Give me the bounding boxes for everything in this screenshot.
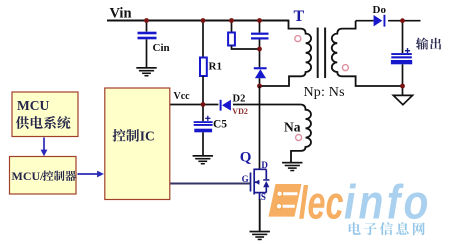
wire snubber resistor to node bbox=[232, 46, 260, 50]
node junction Cin on Vin rail bbox=[144, 18, 149, 23]
polarity dot secondary bbox=[342, 65, 348, 71]
svg-text:Vcc: Vcc bbox=[174, 91, 191, 102]
wire R1 branch bbox=[202, 21, 204, 58]
svg-text:MCU/: MCU/ bbox=[12, 169, 45, 183]
svg-text:S: S bbox=[261, 192, 266, 202]
resistor R1 bbox=[200, 58, 207, 77]
capacitor output Co bbox=[391, 53, 412, 64]
node junction snubber cap on Vin rail bbox=[257, 18, 262, 23]
wire D2 to Na winding bbox=[233, 104, 300, 106]
box MCU controller bbox=[10, 157, 77, 195]
transformer secondary winding Ns bbox=[332, 21, 403, 86]
box control IC bbox=[105, 88, 170, 200]
polarity dot Na bbox=[296, 135, 302, 141]
svg-text:R1: R1 bbox=[209, 61, 222, 73]
wire top rail Vin bbox=[107, 20, 289, 22]
wire output cap to node bbox=[402, 64, 404, 95]
diode snubber bbox=[259, 49, 261, 67]
MOSFET body diode bbox=[263, 181, 269, 187]
ground under Na bbox=[282, 162, 302, 172]
node junction snubber resistor on Vin rail bbox=[229, 18, 234, 23]
transformer core bbox=[317, 28, 319, 79]
svg-text:IC: IC bbox=[140, 129, 155, 144]
capacitor C5 bbox=[202, 105, 204, 122]
transformer aux winding Na bbox=[291, 105, 311, 163]
polarity dot primary bbox=[295, 36, 301, 42]
svg-text:Np: Ns: Np: Ns bbox=[304, 85, 345, 100]
svg-text:VD2: VD2 bbox=[232, 107, 248, 116]
box MCU power system bbox=[12, 92, 78, 137]
svg-text:D2: D2 bbox=[233, 94, 246, 105]
node junction snubber RC to diode bbox=[257, 47, 262, 52]
wire Cin to ground bbox=[146, 39, 148, 67]
wire Cin branch bbox=[146, 21, 148, 32]
wire source to ground bbox=[259, 199, 261, 231]
wire C5 to ground bbox=[202, 132, 204, 155]
node junction Do cathode output bbox=[400, 18, 405, 23]
svg-text:T: T bbox=[294, 8, 305, 25]
ground under Cin bbox=[136, 67, 156, 77]
svg-text:MCU: MCU bbox=[17, 98, 49, 113]
wire snubber cap to node bbox=[259, 40, 261, 50]
transistor Q MOSFET bbox=[251, 169, 267, 201]
node junction R1 on Vin rail bbox=[201, 18, 206, 23]
ground under Q bbox=[250, 231, 270, 241]
capacitor Cin bbox=[138, 32, 157, 40]
arrow MCU to controller bbox=[43, 138, 45, 151]
svg-text:Vin: Vin bbox=[110, 6, 132, 22]
ground under C5 bbox=[193, 155, 213, 165]
wire R1 to Vcc node bbox=[202, 76, 204, 105]
svg-text:C5: C5 bbox=[213, 118, 227, 130]
svg-text:Na: Na bbox=[284, 119, 301, 134]
svg-text:D: D bbox=[261, 160, 268, 170]
watermark Elecinfo logo bbox=[269, 176, 432, 229]
transformer T primary winding Np bbox=[260, 20, 312, 86]
diode D2 bbox=[220, 100, 222, 111]
node junction snubber diode to primary bottom bbox=[257, 84, 262, 89]
wire gate from control IC bbox=[170, 183, 251, 185]
svg-text:Do: Do bbox=[373, 4, 387, 16]
wire Do to output bbox=[388, 20, 420, 22]
svg-text:info: info bbox=[344, 176, 432, 229]
arrow controller to control IC bbox=[78, 173, 98, 175]
wire Vcc line bbox=[170, 104, 219, 106]
watermark text 电子信息网 bbox=[349, 222, 425, 235]
wire snubber resistor branch bbox=[231, 21, 233, 33]
svg-text:lec: lec bbox=[299, 178, 344, 229]
MOSFET arrow bbox=[255, 180, 259, 185]
ground triangle output bbox=[393, 95, 412, 104]
label 输出 bbox=[416, 38, 441, 50]
diode Do bbox=[356, 20, 374, 22]
wire snubber cap branch bbox=[259, 21, 261, 33]
wire output cap branch bbox=[402, 21, 404, 54]
node junction output return bbox=[400, 84, 405, 89]
node junction Vcc C5 D2 bbox=[201, 102, 206, 107]
resistor snubber bbox=[228, 33, 235, 46]
wire drain line bbox=[259, 86, 261, 170]
svg-text:Cin: Cin bbox=[153, 42, 170, 54]
capacitor snubber bbox=[251, 33, 269, 40]
svg-text:Q: Q bbox=[240, 150, 252, 166]
svg-text:G: G bbox=[242, 174, 249, 184]
